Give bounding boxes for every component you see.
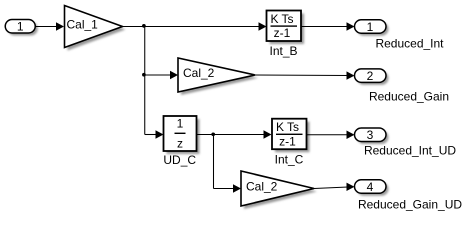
integrator Int_C [272, 119, 307, 150]
wire Cal_1 to Int_B [123, 26, 260, 28]
svg-text:UD_C: UD_C [163, 153, 196, 167]
wire corner to UD_C [145, 134, 157, 136]
output port 2 shadow [357, 71, 389, 85]
arrowhead into output 3 [347, 131, 355, 139]
svg-text:1: 1 [367, 20, 374, 34]
output port 1 [355, 20, 387, 34]
svg-text:3: 3 [367, 128, 374, 142]
arrowhead into output 2 [347, 71, 355, 79]
arrowhead into UD_C [156, 130, 164, 138]
output port 3 [355, 128, 387, 142]
wire node B to Cal_2 [145, 74, 171, 76]
integrator Int_B shadow [270, 14, 305, 45]
UD_C fraction bar [175, 133, 186, 134]
gain Cal_2 (row 2) shadow [181, 61, 258, 95]
svg-text:K Ts: K Ts [270, 12, 293, 26]
input port 1 shadow [8, 22, 38, 36]
svg-text:2: 2 [367, 69, 374, 83]
wire Int_C to output 3 [307, 134, 349, 136]
arrowhead into Cal_2 (row 4) [233, 184, 241, 192]
arrowhead into Int_B [259, 22, 267, 30]
svg-text:Reduced_Int_UD: Reduced_Int_UD [364, 143, 456, 157]
svg-text:Cal_2: Cal_2 [246, 180, 278, 194]
unit delay UD_C [164, 116, 197, 151]
Int_B fraction bar [271, 25, 298, 26]
gain Cal_1 shadow [68, 9, 126, 51]
svg-text:z-1: z-1 [279, 134, 296, 148]
input port 1 [5, 20, 35, 34]
arrowhead into output 4 [347, 183, 355, 191]
junction node A [142, 24, 146, 28]
svg-text:Cal_1: Cal_1 [67, 18, 99, 32]
Int_C fraction bar [276, 134, 303, 135]
wire Cal_2 to output 2 [255, 74, 348, 77]
wire vertical from node C [213, 135, 215, 189]
svg-text:Reduced_Gain_UD: Reduced_Gain_UD [358, 198, 462, 212]
svg-text:4: 4 [367, 180, 374, 194]
arrowhead into Cal_1 [56, 22, 64, 30]
unit delay UD_C shadow [167, 119, 200, 154]
wire corner to Cal_2 (row 4) [214, 188, 235, 190]
junction node C [211, 132, 215, 136]
svg-text:1: 1 [17, 20, 24, 34]
svg-text:Int_C: Int_C [275, 153, 304, 167]
gain Cal_2 (row 4) [241, 171, 314, 206]
gain Cal_2 (row 2) [178, 58, 255, 92]
arrowhead into output 1 [347, 22, 355, 30]
wire Cal_2 to output 4 [314, 187, 348, 189]
svg-text:Int_B: Int_B [269, 44, 297, 58]
wire input to Cal_1 [36, 26, 59, 28]
arrowhead into Int_C [264, 130, 272, 138]
arrowhead into Cal_2 (row 2) [170, 71, 178, 79]
integrator Int_B [267, 11, 302, 42]
output port 4 [355, 180, 387, 194]
svg-text:K Ts: K Ts [276, 120, 299, 134]
svg-text:Reduced_Gain: Reduced_Gain [369, 90, 449, 104]
svg-text:Cal_2: Cal_2 [183, 66, 215, 80]
svg-text:1: 1 [177, 117, 184, 131]
gain Cal_2 (row 4) shadow [244, 174, 317, 209]
wire Int_B to output 1 [301, 26, 348, 28]
output port 1 shadow [357, 22, 389, 36]
junction node B [142, 73, 146, 77]
svg-text:z-1: z-1 [274, 26, 291, 40]
wire UD_C to Int_C [197, 134, 265, 136]
output port 2 [355, 69, 387, 83]
output port 3 shadow [357, 131, 389, 145]
integrator Int_C shadow [275, 122, 310, 153]
wire vertical branch from node A [144, 27, 146, 135]
output port 4 shadow [357, 182, 389, 196]
svg-text:z: z [177, 137, 183, 151]
svg-text:Reduced_Int: Reduced_Int [375, 37, 444, 51]
gain Cal_1 [65, 6, 123, 48]
